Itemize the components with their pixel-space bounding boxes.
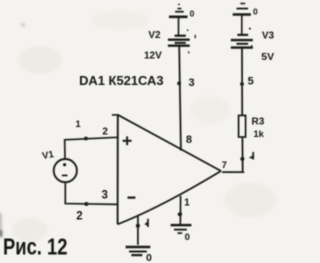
svg-text:DA1 К521СА3: DA1 К521СА3 — [79, 73, 164, 88]
svg-text:12V: 12V — [144, 51, 162, 62]
svg-text:8: 8 — [186, 134, 192, 146]
svg-text:3: 3 — [101, 189, 107, 201]
svg-text:1: 1 — [184, 198, 190, 209]
svg-text:0: 0 — [253, 7, 258, 17]
svg-text:R3: R3 — [252, 117, 265, 128]
svg-text:0: 0 — [146, 252, 152, 263]
svg-text:Рис. 12: Рис. 12 — [3, 234, 68, 260]
svg-text:5: 5 — [248, 76, 254, 88]
svg-text:5V: 5V — [261, 51, 274, 63]
svg-text:7: 7 — [222, 160, 227, 171]
svg-text:2: 2 — [76, 211, 82, 223]
svg-text:1k: 1k — [253, 129, 264, 140]
svg-text:0: 0 — [190, 8, 195, 18]
svg-text:V3: V3 — [262, 30, 275, 41]
svg-text:1: 1 — [75, 119, 81, 130]
svg-text:2: 2 — [102, 126, 108, 137]
svg-text:0: 0 — [185, 232, 190, 243]
svg-text:3: 3 — [189, 77, 195, 89]
svg-text:V2: V2 — [148, 30, 161, 41]
